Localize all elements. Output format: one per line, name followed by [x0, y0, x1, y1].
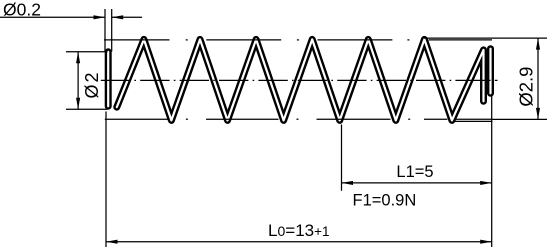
extension line top right (outer diameter, to Ø2.9 dim) — [424, 37, 547, 39]
svg-text:Ø2.9: Ø2.9 — [515, 67, 536, 107]
svg-text:L0=13+1: L0=13+1 — [268, 221, 330, 240]
svg-text:F1=0.9N: F1=0.9N — [353, 191, 417, 209]
svg-text:Ø2: Ø2 — [82, 70, 102, 98]
bottom centerline (dash-dot with dots) — [105, 118, 493, 120]
right end coil bottom edge line — [453, 120, 492, 122]
L1 dimension line with arrows — [342, 182, 492, 184]
shared right extension line (L1/L0) — [491, 96, 493, 247]
Ø2.9 dimension line with arrows (right) — [537, 38, 539, 119]
extension line bottom right (outer diameter, to Ø2.9 dim) — [492, 118, 547, 120]
svg-text:Ø0.2: Ø0.2 — [3, 0, 41, 19]
L1 extension line left — [341, 125, 343, 191]
Ø0.2 dimension leader right with arrow — [112, 16, 142, 18]
Ø0.2 dimension leader left with arrow — [0, 16, 105, 18]
L0 dimension line with arrows — [106, 241, 492, 243]
Ø2 extension lines (inner diameter, left) — [66, 51, 108, 53]
middle axis centerline (dash-dot) — [101, 79, 498, 81]
spring left end coil bar (ground end, edge view) — [105, 52, 112, 106]
top centerline (dash-dot with dots) — [104, 39, 492, 41]
wire diameter extension lines (Ø0.2) — [104, 9, 106, 52]
spring coil body (zigzag wire, double-line via white core) — [117, 39, 484, 120]
svg-text:L1=5: L1=5 — [396, 163, 433, 181]
Ø2 dimension line with arrows — [77, 52, 79, 110]
L0 extension line left — [105, 112, 107, 248]
spring right end wire tip bar — [487, 49, 494, 94]
